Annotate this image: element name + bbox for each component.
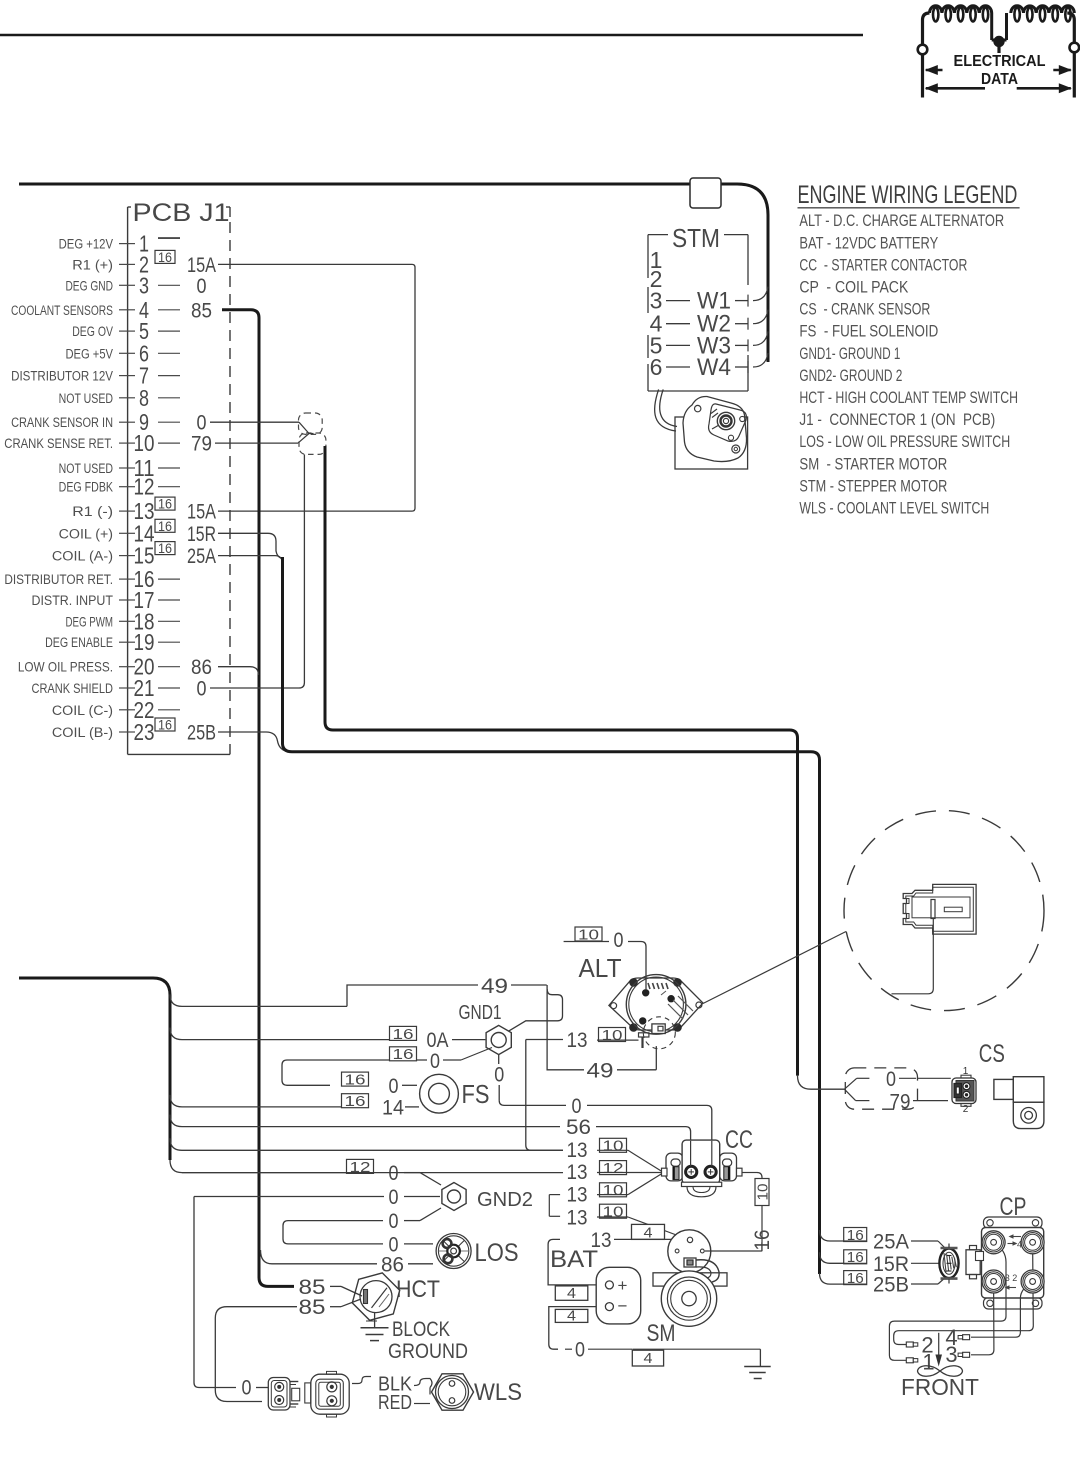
svg-text:CS - CRANK SENSOR: CS - CRANK SENSOR bbox=[799, 301, 930, 319]
svg-text:16: 16 bbox=[751, 1230, 774, 1251]
svg-text:BAT - 12VDC BATTERY: BAT - 12VDC BATTERY bbox=[799, 234, 938, 253]
svg-text:15R: 15R bbox=[187, 522, 216, 546]
svg-text:16: 16 bbox=[158, 518, 172, 534]
svg-text:SM: SM bbox=[647, 1319, 676, 1347]
svg-text:DEG FDBK: DEG FDBK bbox=[59, 479, 114, 495]
svg-text:10: 10 bbox=[602, 1027, 623, 1044]
svg-text:1: 1 bbox=[963, 1066, 969, 1077]
svg-text:COOLANT SENSORS: COOLANT SENSORS bbox=[11, 302, 113, 318]
svg-text:16: 16 bbox=[393, 1026, 414, 1043]
svg-text:0: 0 bbox=[614, 929, 624, 953]
svg-text:15: 15 bbox=[134, 544, 155, 569]
svg-text:0: 0 bbox=[430, 1050, 440, 1074]
svg-text:COIL (+): COIL (+) bbox=[59, 525, 113, 541]
svg-text:CRANK SENSOR IN: CRANK SENSOR IN bbox=[11, 415, 113, 431]
svg-text:3 2: 3 2 bbox=[1005, 1273, 1018, 1283]
svg-text:DEG +5V: DEG +5V bbox=[65, 346, 113, 361]
svg-text:15A: 15A bbox=[187, 253, 216, 276]
svg-text:NOT USED: NOT USED bbox=[59, 390, 113, 406]
svg-text:DEG ENABLE: DEG ENABLE bbox=[45, 635, 113, 651]
svg-text:DISTRIBUTOR RET.: DISTRIBUTOR RET. bbox=[4, 571, 113, 587]
svg-text:4: 4 bbox=[567, 1285, 576, 1301]
svg-text:0: 0 bbox=[886, 1068, 896, 1092]
svg-text:3: 3 bbox=[650, 288, 663, 314]
svg-text:10: 10 bbox=[134, 431, 155, 456]
svg-text:16: 16 bbox=[393, 1046, 414, 1063]
svg-text:12: 12 bbox=[603, 1160, 624, 1177]
svg-text:WLS - COOLANT LEVEL SWITCH: WLS - COOLANT LEVEL SWITCH bbox=[799, 500, 989, 518]
svg-text:STM: STM bbox=[672, 225, 720, 254]
svg-text:2: 2 bbox=[963, 1104, 969, 1115]
svg-text:3: 3 bbox=[139, 273, 149, 299]
svg-text:STM - STEPPER MOTOR: STM - STEPPER MOTOR bbox=[799, 477, 947, 496]
svg-text:COIL (A-): COIL (A-) bbox=[52, 549, 113, 565]
svg-text:25B: 25B bbox=[873, 1273, 909, 1296]
svg-text:79: 79 bbox=[890, 1090, 911, 1113]
svg-text:86: 86 bbox=[191, 656, 212, 679]
svg-text:16: 16 bbox=[158, 717, 172, 733]
svg-text:DEG +12V: DEG +12V bbox=[59, 235, 114, 252]
svg-text:DEG OV: DEG OV bbox=[72, 324, 113, 340]
svg-text:10: 10 bbox=[603, 1138, 624, 1155]
svg-text:0: 0 bbox=[575, 1338, 585, 1362]
svg-text:14: 14 bbox=[382, 1097, 404, 1120]
svg-text:ALT: ALT bbox=[579, 954, 622, 983]
svg-text:WLS: WLS bbox=[474, 1378, 522, 1405]
svg-text:DEG GND: DEG GND bbox=[65, 278, 113, 294]
svg-text:DISTRIBUTOR 12V: DISTRIBUTOR 12V bbox=[11, 368, 113, 384]
svg-text:0: 0 bbox=[389, 1162, 399, 1186]
svg-text:12: 12 bbox=[134, 475, 155, 500]
svg-text:HCT - HIGH COOLANT TEMP SWITCH: HCT - HIGH COOLANT TEMP SWITCH bbox=[799, 389, 1018, 407]
svg-text:BLOCK: BLOCK bbox=[392, 1318, 450, 1341]
svg-text:GND2: GND2 bbox=[477, 1189, 533, 1211]
svg-text:FS: FS bbox=[462, 1080, 490, 1109]
svg-text:49: 49 bbox=[586, 1058, 613, 1082]
svg-text:86: 86 bbox=[381, 1253, 404, 1276]
svg-text:4: 4 bbox=[643, 1350, 652, 1366]
svg-text:1: 1 bbox=[922, 1349, 934, 1374]
svg-text:16: 16 bbox=[345, 1071, 366, 1088]
svg-text:CP - COIL PACK: CP - COIL PACK bbox=[799, 278, 908, 297]
svg-text:0: 0 bbox=[197, 411, 207, 435]
svg-text:23: 23 bbox=[134, 720, 155, 745]
svg-text:85: 85 bbox=[191, 299, 212, 322]
svg-text:HCT: HCT bbox=[396, 1275, 440, 1302]
svg-text:13: 13 bbox=[567, 1161, 588, 1184]
svg-text:16: 16 bbox=[158, 249, 172, 265]
svg-text:COIL (B-): COIL (B-) bbox=[52, 725, 113, 741]
svg-text:GND1: GND1 bbox=[459, 1001, 502, 1023]
svg-text:8: 8 bbox=[139, 386, 149, 412]
svg-text:4: 4 bbox=[1017, 1240, 1022, 1250]
svg-text:CRANK SHIELD: CRANK SHIELD bbox=[31, 681, 113, 697]
svg-text:85: 85 bbox=[298, 1295, 325, 1319]
svg-text:0: 0 bbox=[389, 1210, 399, 1234]
svg-text:DEG PWM: DEG PWM bbox=[65, 614, 113, 630]
svg-text:13: 13 bbox=[567, 1139, 588, 1162]
svg-text:DATA: DATA bbox=[981, 71, 1018, 88]
svg-text:0: 0 bbox=[494, 1063, 504, 1087]
svg-text:GND2- GROUND 2: GND2- GROUND 2 bbox=[799, 367, 902, 386]
svg-text:19: 19 bbox=[134, 631, 155, 656]
svg-text:R1 (+): R1 (+) bbox=[72, 258, 113, 274]
svg-text:13: 13 bbox=[567, 1184, 588, 1207]
svg-text:−: − bbox=[618, 1297, 628, 1316]
svg-text:RED: RED bbox=[378, 1391, 412, 1413]
svg-text:R1 (-): R1 (-) bbox=[72, 504, 113, 520]
svg-text:LOS: LOS bbox=[475, 1239, 519, 1267]
svg-text:56: 56 bbox=[566, 1115, 591, 1139]
svg-text:ALT - D.C. CHARGE ALTERNATOR: ALT - D.C. CHARGE ALTERNATOR bbox=[799, 212, 1004, 231]
svg-text:CS: CS bbox=[979, 1039, 1005, 1067]
svg-text:GND1- GROUND 1: GND1- GROUND 1 bbox=[799, 345, 900, 364]
svg-text:79: 79 bbox=[191, 433, 212, 456]
svg-text:DISTR. INPUT: DISTR. INPUT bbox=[31, 592, 113, 608]
svg-text:LOW OIL PRESS.: LOW OIL PRESS. bbox=[18, 659, 113, 675]
svg-text:ENGINE WIRING LEGEND: ENGINE WIRING LEGEND bbox=[798, 180, 1018, 209]
svg-text:CP: CP bbox=[1000, 1193, 1027, 1221]
svg-text:CC: CC bbox=[725, 1126, 753, 1154]
svg-text:0: 0 bbox=[197, 677, 207, 701]
svg-text:CRANK SENSE RET.: CRANK SENSE RET. bbox=[4, 435, 113, 451]
svg-text:+: + bbox=[618, 1276, 628, 1295]
svg-text:FS - FUEL SOLENOID: FS - FUEL SOLENOID bbox=[799, 322, 938, 341]
svg-text:LOS - LOW OIL PRESSURE SWITCH: LOS - LOW OIL PRESSURE SWITCH bbox=[799, 433, 1010, 451]
svg-text:10: 10 bbox=[755, 1184, 772, 1201]
svg-text:BAT: BAT bbox=[550, 1247, 598, 1273]
svg-text:25B: 25B bbox=[187, 721, 216, 744]
svg-text:13: 13 bbox=[567, 1207, 588, 1230]
svg-text:COIL (C-): COIL (C-) bbox=[52, 702, 113, 718]
svg-text:W4: W4 bbox=[697, 353, 731, 380]
svg-text:0: 0 bbox=[389, 1075, 399, 1099]
svg-text:NOT USED: NOT USED bbox=[59, 461, 113, 477]
svg-text:3: 3 bbox=[945, 1342, 957, 1367]
svg-text:13: 13 bbox=[567, 1029, 588, 1052]
svg-text:GROUND: GROUND bbox=[388, 1340, 468, 1364]
svg-text:0: 0 bbox=[389, 1186, 399, 1210]
svg-text:0: 0 bbox=[242, 1376, 252, 1400]
svg-text:16: 16 bbox=[158, 541, 172, 557]
svg-text:10: 10 bbox=[603, 1182, 624, 1199]
svg-text:16: 16 bbox=[345, 1093, 366, 1110]
svg-text:25A: 25A bbox=[187, 544, 216, 567]
svg-text:25A: 25A bbox=[873, 1230, 909, 1253]
svg-text:10: 10 bbox=[578, 926, 599, 943]
svg-text:49: 49 bbox=[481, 974, 508, 998]
svg-text:FRONT: FRONT bbox=[901, 1374, 979, 1400]
svg-text:PCB J1: PCB J1 bbox=[133, 199, 230, 227]
svg-text:16: 16 bbox=[158, 496, 172, 512]
svg-text:15A: 15A bbox=[187, 500, 216, 523]
svg-text:0: 0 bbox=[197, 275, 207, 299]
svg-text:4: 4 bbox=[643, 1225, 652, 1241]
svg-text:CC - STARTER CONTACTOR: CC - STARTER CONTACTOR bbox=[799, 257, 967, 275]
svg-text:4: 4 bbox=[567, 1308, 576, 1324]
svg-text:ELECTRICAL: ELECTRICAL bbox=[954, 53, 1046, 71]
svg-text:10: 10 bbox=[603, 1203, 624, 1220]
svg-text:J1 - CONNECTOR 1 (ON PCB): J1 - CONNECTOR 1 (ON PCB) bbox=[799, 411, 995, 430]
svg-text:SM - STARTER MOTOR: SM - STARTER MOTOR bbox=[799, 455, 947, 474]
svg-text:6: 6 bbox=[650, 354, 663, 380]
